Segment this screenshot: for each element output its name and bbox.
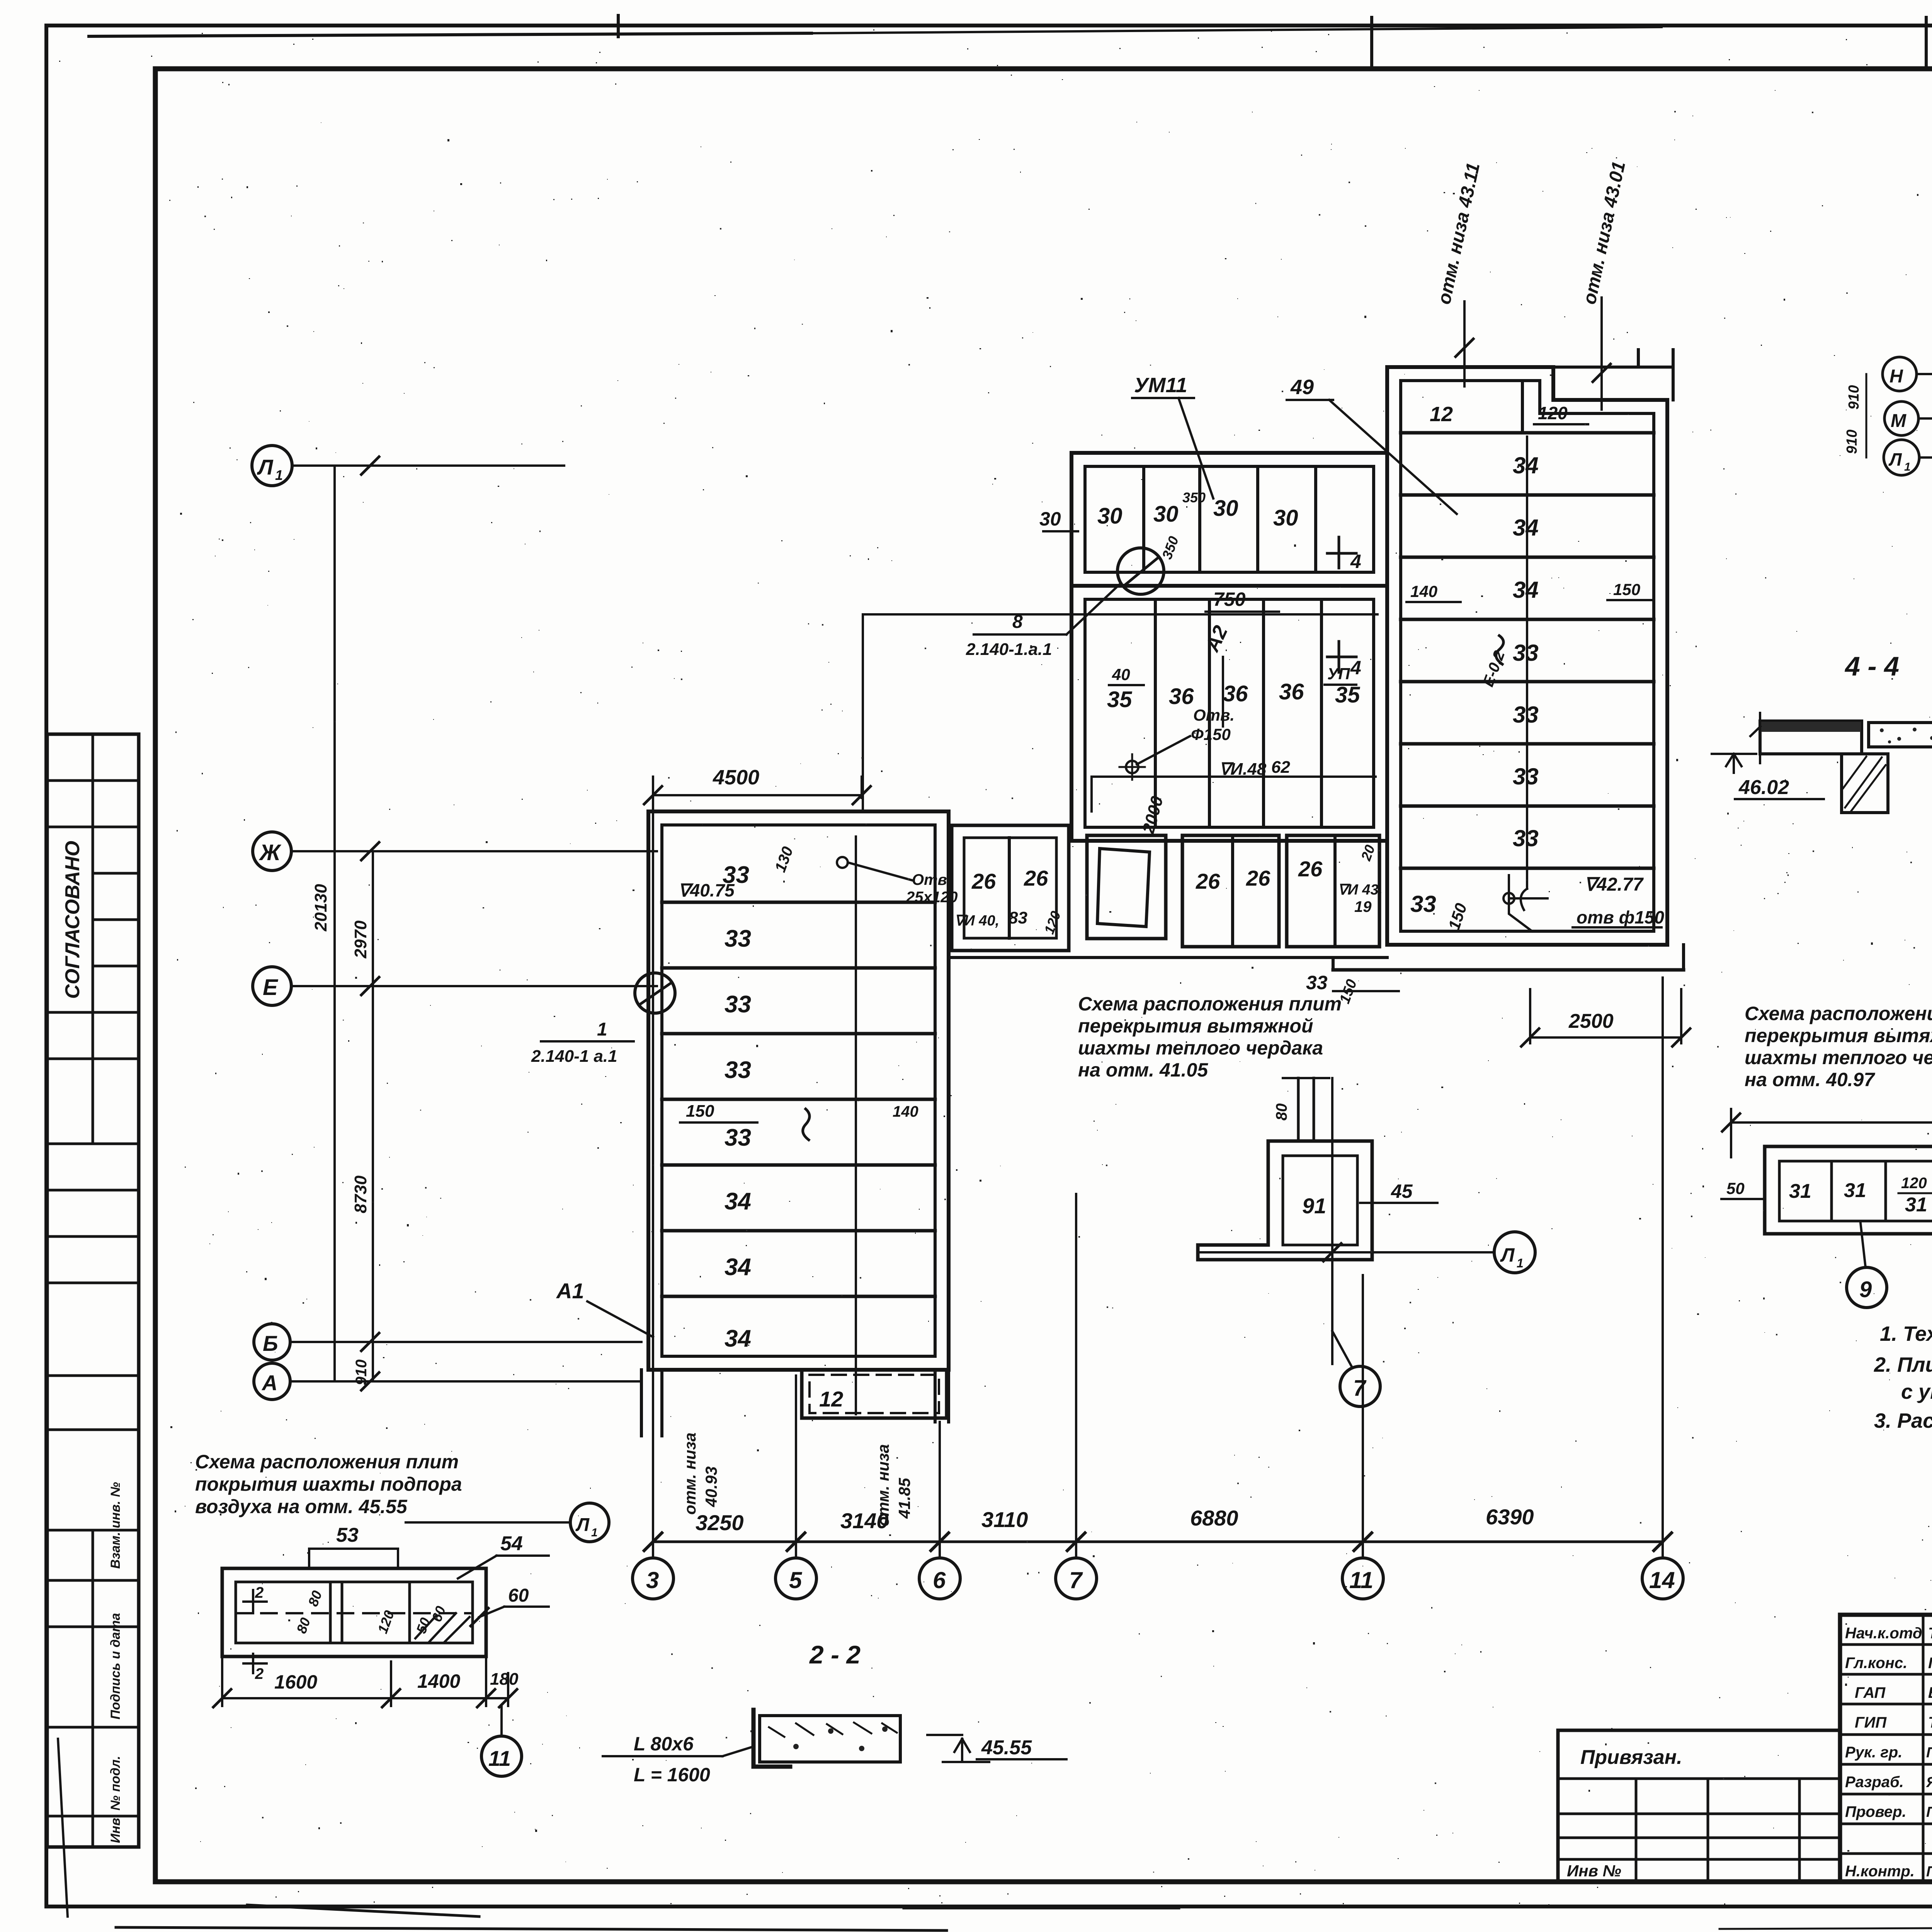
svg-text:А1: А1 [556,1279,584,1303]
axis circle 14 [1642,1542,1683,1599]
section mark 4 top [1338,537,1340,568]
svg-text:Нач.к.отд: Нач.к.отд [1845,1625,1922,1642]
svg-text:41.85: 41.85 [895,1478,913,1519]
svg-text:6: 6 [933,1567,946,1593]
circle 9 [1847,1267,1887,1308]
svg-text:53: 53 [336,1524,359,1546]
отм. низа 43.11 rotated + leader [1434,161,1484,306]
svg-text:Л: Л [575,1515,590,1535]
svg-text:Схема расположения плит: Схема расположения плит [1078,993,1342,1015]
svg-text:Е: Е [263,975,279,1000]
left slab [1760,721,1862,754]
2000 rotated [1139,794,1167,836]
title block top line [1840,1613,1932,1617]
small rotated labels in plan [293,1616,313,1636]
svg-text:26: 26 [1196,869,1220,893]
boundary under 26 blocks [949,956,1387,959]
svg-text:12: 12 [819,1387,843,1411]
axis circle 11 [1342,1542,1383,1599]
svg-text:1: 1 [1517,1256,1524,1270]
svg-text:46.02: 46.02 [1738,776,1789,799]
svg-text:1: 1 [591,1526,598,1539]
svg-text:Яблонцева: Яблонцева [1926,1774,1932,1791]
axis lines [1331,1078,1333,1364]
axis circle Б left [254,1324,290,1360]
svg-text:36: 36 [1169,684,1194,709]
svg-text:ГАП: ГАП [1855,1684,1886,1701]
svg-text:33: 33 [1513,640,1539,666]
svg-text:L 80х6: L 80х6 [634,1733,694,1755]
svg-text:на отм. 40.97: на отм. 40.97 [1745,1069,1875,1090]
svg-text:6880: 6880 [1190,1506,1238,1530]
scan streak top [89,33,811,36]
fold mark top 1 [617,15,620,37]
svg-text:9: 9 [1859,1277,1872,1302]
center line of block [855,837,857,1414]
circle 7 detail [1340,1366,1380,1406]
axis line Ж [291,850,657,852]
svg-text:Схема расположения плит: Схема расположения плит [1745,1003,1932,1024]
svg-text:с уклоном: с уклоном [1901,1380,1932,1403]
svg-text:60: 60 [508,1585,529,1606]
bottom outer boundary below tall block [1333,968,1684,972]
svg-text:36: 36 [1279,679,1304,704]
svg-text:34: 34 [1513,452,1539,478]
svg-text:34: 34 [724,1254,751,1281]
svg-text:перекрытия вытяжной: перекрытия вытяжной [1078,1015,1313,1037]
svg-text:Пристинский: Пристинский [1926,1804,1932,1820]
section mark 2 upper [252,1590,254,1613]
svg-text:2970: 2970 [351,920,370,959]
section mark 2 lower [252,1654,254,1673]
fold mark top 2 [1370,17,1373,70]
bracket 53 [308,1549,310,1568]
axis circle Л1 left [252,446,292,486]
svg-text:2.140-1.а.1: 2.140-1.а.1 [966,640,1052,659]
svg-text:2 - 2: 2 - 2 [809,1640,861,1669]
svg-text:Привязан.: Привязан. [1580,1746,1682,1769]
pier below [1842,754,1888,813]
svg-text:ГИП: ГИП [1855,1714,1887,1731]
walls [1198,1141,1372,1260]
svg-text:150: 150 [1613,580,1640,599]
svg-text:Ф150: Ф150 [1191,725,1231,743]
svg-text:Рук. гр.: Рук. гр. [1845,1744,1902,1761]
svg-text:Инв №: Инв № [1567,1862,1621,1880]
small dims in 30 block [1159,534,1182,561]
axis circles Н М Л1 left of plan [1883,357,1917,391]
svg-text:Л: Л [1888,449,1902,469]
walls [1765,1146,1932,1234]
svg-text:49: 49 [1290,376,1314,399]
svg-text:180: 180 [490,1670,519,1689]
axis line Б [290,1341,641,1343]
svg-text:40.93: 40.93 [702,1466,720,1507]
dim 2500 under tall block [1530,1036,1681,1039]
svg-text:6390: 6390 [1486,1505,1534,1529]
svg-text:∇И 43,: ∇И 43, [1338,882,1383,898]
axis circle 3 [633,1542,673,1599]
svg-text:83: 83 [1009,908,1027,927]
wall stub up [1297,1078,1300,1141]
dim ticks bottom [644,1533,662,1551]
svg-text:1400: 1400 [417,1670,460,1692]
svg-text:перекрытия вытяжной: перекрытия вытяжной [1745,1025,1932,1046]
svg-text:19: 19 [1354,898,1372,915]
angle L [752,1710,756,1767]
svg-text:26: 26 [1298,857,1323,881]
svg-text:31: 31 [1844,1179,1866,1202]
svg-text:2: 2 [255,1584,264,1601]
Е-squiggle row 4 [1496,636,1503,664]
svg-text:14: 14 [1649,1567,1675,1593]
dashed center [236,1612,473,1614]
svg-text:Б: Б [263,1331,278,1355]
top dim line [1731,1121,1932,1124]
stamp column inner vertical [92,734,94,1144]
axis circle Ж left [253,832,291,871]
svg-text:35: 35 [1335,682,1360,707]
svg-text:33: 33 [1513,764,1539,789]
svg-text:1: 1 [275,467,283,483]
slab with concrete [760,1716,900,1762]
svg-text:140: 140 [1410,582,1437,600]
svg-text:30: 30 [1039,508,1061,530]
block inner wall [662,825,935,1356]
svg-text:34: 34 [724,1188,751,1215]
bottom scan streak [116,1927,947,1930]
svg-text:СОГЛАСОВАНО: СОГЛАСОВАНО [61,841,84,999]
svg-text:140: 140 [893,1103,918,1120]
svg-text:30: 30 [1097,503,1122,529]
svg-text:7: 7 [1353,1376,1367,1401]
svg-text:33: 33 [1306,972,1328,993]
svg-text:45.55: 45.55 [981,1736,1032,1759]
svg-text:А: А [261,1371,277,1395]
svg-text:Пристинская: Пристинская [1926,1864,1932,1880]
svg-text:4: 4 [1350,657,1361,679]
svg-text:шахты теплого чердака: шахты теплого чердака [1078,1037,1323,1059]
section mark 4 in central [1338,641,1340,672]
svg-text:Подпись и дата: Подпись и дата [108,1613,123,1719]
svg-text:2. Плиты покрытия в осях „: 2. Плиты покрытия в осях „А÷Ж“ и „Е÷Н“ у… [1874,1353,1932,1376]
axis circle 7 [1056,1542,1097,1599]
svg-text:33: 33 [1513,702,1539,728]
stamp cell lines [47,779,139,782]
svg-text:8: 8 [1012,612,1023,632]
svg-text:30: 30 [1153,502,1179,527]
svg-text:на отм. 41.05: на отм. 41.05 [1078,1059,1208,1081]
wall stub below block bottom-left [640,1370,643,1436]
svg-text:М: М [1891,411,1906,431]
circle Л1 detail [1494,1232,1535,1273]
bottom dimension line [653,1541,1663,1543]
dim ticks left [361,457,379,474]
plan walls [222,1568,486,1656]
910 rotated dims left [1846,385,1862,410]
axis verticals up from dim line [652,798,654,1542]
svg-text:Гл.конс.: Гл.конс. [1845,1655,1907,1672]
svg-text:Провер.: Провер. [1845,1803,1906,1820]
svg-text:62: 62 [1271,758,1290,777]
svg-text:1600: 1600 [274,1671,317,1693]
svg-text:3: 3 [646,1567,659,1593]
svg-text:3110: 3110 [981,1507,1028,1532]
axis line Л1 left [292,464,564,467]
dividers [1154,599,1157,827]
svg-text:80: 80 [1273,1104,1290,1121]
svg-text:Разраб.: Разраб. [1845,1774,1904,1791]
svg-text:4: 4 [1350,551,1361,572]
svg-text:34: 34 [1513,577,1539,603]
axis circle 6 [919,1542,960,1599]
svg-text:Полыщук: Полыщук [1928,1655,1932,1672]
svg-text:31: 31 [1789,1180,1811,1202]
svg-text:35: 35 [1107,687,1132,712]
svg-text:150: 150 [686,1102,714,1121]
right wall extension down to slab 12 [934,1370,937,1422]
svg-text:1: 1 [597,1019,607,1040]
axis circle А left [254,1363,290,1400]
signature table rows [1840,1643,1932,1646]
axis line Е [291,985,657,987]
svg-text:33: 33 [1410,891,1436,917]
svg-text:отм. низа: отм. низа [681,1432,699,1515]
svg-text:Л: Л [1500,1244,1515,1266]
rotated А2 [1201,622,1232,656]
inner wall (left dashed) [1401,381,1654,931]
slab dividers 30 block [1142,466,1145,572]
svg-text:45: 45 [1391,1180,1413,1202]
отм. низа 43.01 rotated + leader [1579,160,1629,306]
svg-text:36: 36 [1223,681,1248,706]
left vertical dim line B [372,851,374,1381]
svg-text:7: 7 [1069,1567,1083,1593]
svg-text:30: 30 [1213,496,1238,521]
12 slab strip [1401,431,1654,435]
svg-text:34: 34 [1513,515,1539,541]
svg-text:2.140-1 а.1: 2.140-1 а.1 [531,1047,617,1066]
svg-text:Схема расположения плит: Схема расположения плит [195,1451,459,1473]
circle 11 below [481,1736,522,1776]
svg-text:1: 1 [1904,461,1911,473]
svg-text:Л: Л [257,455,274,479]
circle Л1 small plan [570,1503,609,1542]
rotated отметка labels [681,1432,720,1515]
fold mark top 3 [1925,17,1928,69]
svg-text:26: 26 [1246,866,1270,890]
dim ticks at slab ends [1759,713,1761,763]
svg-text:30: 30 [1273,505,1298,531]
svg-text:910: 910 [353,1359,370,1385]
svg-text:Вигдергауз: Вигдергауз [1928,1684,1932,1701]
svg-text:Н.контр.: Н.контр. [1845,1863,1915,1880]
axis circle Е left [253,967,291,1005]
svg-text:12: 12 [1430,403,1453,426]
svg-text:26: 26 [971,869,996,893]
svg-text:910: 910 [1846,385,1862,410]
dim 4500 above block [653,794,862,796]
привязан box [1558,1729,1840,1732]
svg-text:3250: 3250 [696,1510,744,1535]
отв mark top [837,857,848,868]
svg-text:34: 34 [724,1325,751,1352]
stamp column outline [47,734,139,1847]
svg-text:1. Технические указания см: 1. Технические указания см. лист 36 [1880,1322,1932,1345]
svg-text:Пристинский: Пристинский [1926,1745,1932,1761]
svg-text:4500: 4500 [713,766,759,789]
left vertical dim line A [333,466,336,1381]
svg-text:шахты теплого чердака: шахты теплого чердака [1745,1047,1932,1068]
svg-text:5: 5 [789,1567,803,1593]
svg-text:54: 54 [500,1532,523,1555]
svg-text:33: 33 [724,1057,751,1083]
svg-text:∇40.75: ∇40.75 [678,880,735,900]
svg-text:33: 33 [724,925,751,952]
axis line А [290,1380,641,1383]
svg-text:Ж: Ж [259,840,282,865]
slab row lines [662,901,935,904]
svg-text:УМ11: УМ11 [1134,374,1187,397]
svg-text:26: 26 [1024,866,1048,890]
svg-text:33: 33 [724,1124,751,1151]
svg-text:2: 2 [255,1665,264,1682]
squiggle center mark [803,1109,810,1140]
node circle 1 on wall [635,973,675,1013]
svg-text:покрытия шахты подпора: покрытия шахты подпора [195,1473,462,1495]
center vertical line [1526,437,1528,889]
svg-text:воздуха на отм. 45.55: воздуха на отм. 45.55 [195,1496,408,1517]
svg-text:40: 40 [1112,665,1130,684]
svg-text:11: 11 [488,1746,511,1770]
svg-text:Отв.: Отв. [1193,706,1235,724]
svg-text:∇И 40,: ∇И 40, [954,913,999,929]
signature table columns [1922,1615,1925,1882]
svg-text:910: 910 [1844,430,1860,454]
svg-text:11: 11 [1349,1567,1373,1593]
svg-text:31: 31 [1905,1194,1927,1216]
top right stub [1553,367,1673,400]
svg-text:91: 91 [1302,1194,1326,1218]
svg-text:2500: 2500 [1568,1010,1614,1032]
outer wall [1387,367,1667,945]
svg-text:Инв. № подл.: Инв. № подл. [108,1756,123,1843]
svg-text:120: 120 [1901,1175,1927,1192]
slab 12 bottom [802,1370,947,1418]
svg-text:3. Расход стали на L80х6 L: 3. Расход стали на L80х6 L=1600 — 11,77 … [1874,1409,1932,1432]
axis circle 5 [776,1542,816,1599]
svg-text:отм. низа: отм. низа [874,1444,892,1526]
svg-text:350: 350 [1182,490,1206,505]
rotated 150 squiggle near bottom label [1445,901,1470,932]
svg-text:Взам. инв. №: Взам. инв. № [108,1482,123,1569]
svg-text:Толстунов: Толстунов [1928,1625,1932,1642]
signature table frame [1838,1615,1842,1882]
svg-text:Отв: Отв [912,871,947,888]
node circle 8 between blocks [1117,548,1164,594]
svg-text:33: 33 [724,991,751,1018]
block outer wall [648,811,949,1370]
svg-text:4 - 4: 4 - 4 [1844,651,1899,681]
svg-text:8730: 8730 [351,1175,370,1213]
svg-text:Титарцев: Титарцев [1928,1714,1932,1731]
horizontal leader in left col [1092,776,1376,778]
svg-text:120: 120 [1538,403,1568,423]
svg-text:L = 1600: L = 1600 [634,1764,710,1786]
svg-text:33: 33 [1513,825,1539,851]
svg-text:20130: 20130 [311,884,330,932]
svg-text:25х120: 25х120 [906,889,957,906]
dividers [329,1582,332,1643]
dim line below [222,1697,508,1699]
svg-text:Н: Н [1889,366,1903,387]
svg-text:∇42.77: ∇42.77 [1584,874,1644,895]
long line 750 [863,613,1378,616]
svg-text:50: 50 [1726,1179,1745,1197]
right slab (concrete) [1869,723,1932,747]
slab rows [1401,493,1654,497]
svg-text:отв ф150: отв ф150 [1577,907,1664,927]
